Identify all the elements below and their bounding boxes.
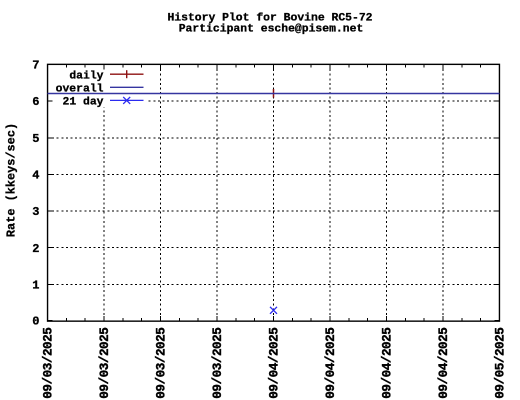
svg-text:09/03/2025: 09/03/2025 xyxy=(210,328,225,399)
svg-text:2: 2 xyxy=(32,242,39,256)
svg-text:09/03/2025: 09/03/2025 xyxy=(97,328,112,399)
svg-text:7: 7 xyxy=(32,59,39,73)
svg-text:1: 1 xyxy=(32,278,39,292)
svg-text:09/04/2025: 09/04/2025 xyxy=(379,328,394,399)
svg-text:6: 6 xyxy=(32,95,39,109)
svg-text:4: 4 xyxy=(32,169,39,183)
svg-text:21 day: 21 day xyxy=(62,97,103,109)
svg-text:Participant esche@pisem.net: Participant esche@pisem.net xyxy=(179,23,364,35)
svg-text:daily: daily xyxy=(69,70,103,82)
svg-text:overall: overall xyxy=(56,83,104,95)
svg-text:09/03/2025: 09/03/2025 xyxy=(153,328,168,399)
svg-text:09/04/2025: 09/04/2025 xyxy=(323,328,338,399)
svg-text:09/04/2025: 09/04/2025 xyxy=(436,328,451,399)
svg-text:5: 5 xyxy=(32,132,39,146)
svg-text:09/04/2025: 09/04/2025 xyxy=(266,328,281,399)
svg-text:09/03/2025: 09/03/2025 xyxy=(40,328,55,399)
svg-text:3: 3 xyxy=(32,205,39,219)
svg-text:0: 0 xyxy=(32,315,39,329)
svg-text:Rate (kkeys/sec): Rate (kkeys/sec) xyxy=(5,123,19,237)
svg-text:09/05/2025: 09/05/2025 xyxy=(492,328,507,399)
